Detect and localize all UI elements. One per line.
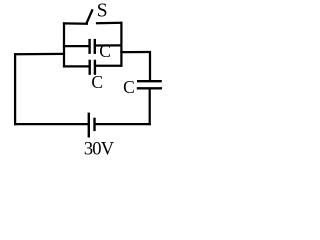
wire: right branch lower stub (149, 88, 151, 125)
battery 30V: long plate (positive) (88, 113, 90, 138)
wire: box left rail (63, 22, 65, 67)
switch S: left lead (63, 22, 88, 25)
capacitor C2: right lead (95, 65, 123, 67)
capacitor C3: bottom plate (137, 87, 162, 89)
wire: bottom left (battery negative side) (14, 123, 89, 125)
capacitor C1: right plate (94, 39, 96, 54)
wire: top-right horizontal from box to right branch (120, 51, 151, 53)
wire: bottom right (battery positive side) (95, 123, 151, 125)
svg-text:30V: 30V (84, 140, 115, 158)
wire: box right rail (120, 22, 122, 67)
capacitor C2: left plate (88, 60, 90, 75)
battery 30V: short plate (negative) (93, 118, 95, 131)
wire: outer left rail (14, 53, 16, 125)
capacitor C3 (right branch): top plate (137, 80, 162, 82)
capacitor C1: right lead (95, 44, 123, 46)
switch S: right lead (96, 22, 123, 25)
wire: top-left horizontal to box left rail (14, 53, 65, 56)
wire: right branch upper stub (149, 51, 151, 81)
svg-text:C: C (99, 41, 111, 61)
svg-text:S: S (97, 1, 108, 22)
capacitor C2 (bottom branch): left lead (63, 65, 90, 67)
switch S: blade (86, 9, 92, 24)
capacitor C1: left plate (88, 39, 90, 54)
capacitor C2: right plate (94, 60, 96, 75)
svg-text:C: C (123, 77, 135, 97)
capacitor C1 (middle branch): left lead (63, 45, 90, 47)
svg-text:C: C (91, 72, 103, 92)
